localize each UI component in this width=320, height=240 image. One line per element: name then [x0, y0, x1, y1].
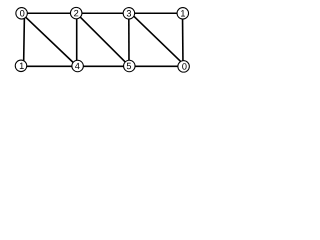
- wire edge 2-4 vertical: [76, 13, 78, 66]
- node 1 bottom-left: [15, 60, 27, 72]
- node 5 bottom: [124, 60, 136, 72]
- node 3 top: [123, 8, 135, 19]
- wire edge 1-4 bottom: [21, 65, 78, 67]
- wire edge 3-1 top: [129, 12, 183, 14]
- wire edge 3-0 diagonal: [131, 13, 186, 66]
- wire edge 0-2 top: [22, 12, 77, 14]
- wire edge 2-5 diagonal: [76, 13, 129, 66]
- wire edge 2-3 top: [76, 12, 129, 14]
- wire edge 3-5 vertical: [128, 13, 130, 66]
- node 0 bottom-right: [178, 61, 190, 73]
- wire edge 0-1 vertical left: [23, 13, 26, 66]
- wire edge 1-0 vertical right: [182, 13, 185, 66]
- wire edge 4-5 bottom: [78, 65, 130, 67]
- node 1 top-right: [177, 8, 189, 19]
- node 2 top: [70, 7, 82, 19]
- wire edge 0-4 diagonal: [22, 13, 77, 66]
- node 4 bottom: [72, 60, 84, 72]
- node 0 top-left: [16, 8, 28, 19]
- wire edge 5-0 bottom: [129, 65, 183, 67]
